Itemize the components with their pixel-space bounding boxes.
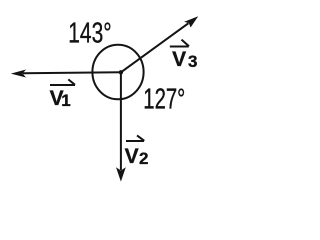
label V2 over-arrow <box>126 135 144 141</box>
node vertex junction <box>119 70 123 74</box>
vector V2 line <box>120 72 122 170</box>
label V3 over-arrow <box>170 40 189 47</box>
vector V2 arrowhead <box>116 167 126 181</box>
label 127 degrees <box>143 84 185 116</box>
vector V3 arrowhead <box>184 16 198 27</box>
label V2 text <box>125 145 149 168</box>
svg-text:1: 1 <box>61 91 70 110</box>
svg-text:V: V <box>125 145 139 168</box>
label V1 text <box>50 87 71 110</box>
label 143 degrees <box>68 18 112 50</box>
label V1 over-arrow <box>50 79 75 85</box>
vector V1 line <box>23 72 121 73</box>
vector V3 line <box>121 23 189 72</box>
vector V1 arrowhead <box>11 70 26 78</box>
svg-text:V: V <box>172 48 186 71</box>
svg-text:127°: 127° <box>143 84 185 116</box>
label V3 text <box>172 48 197 71</box>
svg-text:3: 3 <box>188 52 197 71</box>
svg-text:2: 2 <box>139 149 148 168</box>
svg-text:143°: 143° <box>68 18 112 50</box>
angle circle at vertex <box>92 45 143 100</box>
